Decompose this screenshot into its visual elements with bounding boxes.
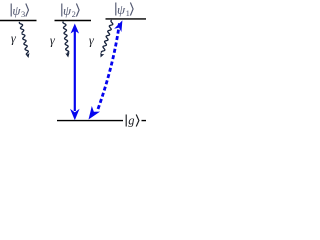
svg-text:1: 1 — [126, 8, 130, 18]
svg-text:2: 2 — [72, 9, 76, 19]
svg-text:3: 3 — [21, 9, 25, 19]
svg-text:g: g — [128, 114, 134, 128]
